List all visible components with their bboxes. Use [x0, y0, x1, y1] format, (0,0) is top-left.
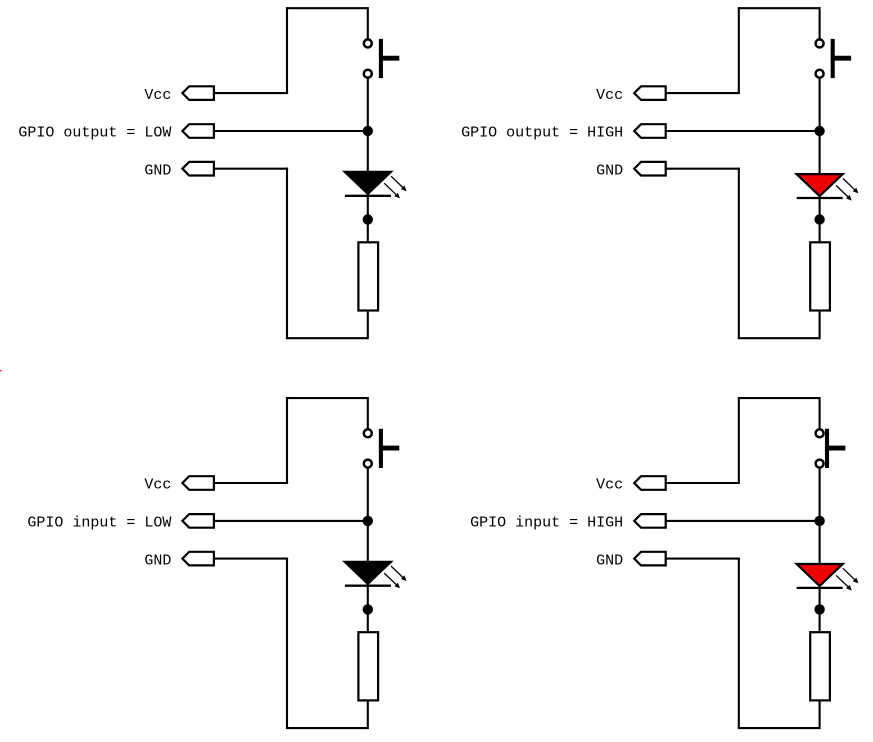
- resistor R1: [358, 242, 378, 310]
- wire: main vertical above switch (circuit 1): [367, 7, 369, 38]
- wire: GND horizontal (circuit 2): [666, 168, 740, 170]
- svg-text:GPIO input = LOW: GPIO input = LOW: [27, 515, 171, 532]
- wire: left vertical Vcc branch (circuit 3): [286, 397, 288, 483]
- wire: GND horizontal (circuit 4): [666, 558, 740, 560]
- LED D4 cathode bar: [797, 587, 843, 589]
- wire: left vertical Vcc branch (circuit 1): [286, 7, 288, 93]
- wire: left vertical GND branch (circuit 3): [286, 558, 288, 729]
- push-button switch SW1 contact circles: [364, 39, 372, 47]
- LED D1 cathode bar: [345, 195, 391, 197]
- global label connector GND (circuit 2): [634, 162, 666, 176]
- junction node between LED and resistor (circuit 1): [363, 214, 373, 224]
- svg-text:Vcc: Vcc: [596, 477, 623, 494]
- svg-text:GPIO output = LOW: GPIO output = LOW: [18, 125, 171, 142]
- push-button switch SW3 contact circles: [364, 429, 372, 437]
- wire: GPIO horizontal (circuit 3): [214, 520, 368, 522]
- wire: main vertical LED to resistor (circuit 4): [819, 587, 821, 632]
- wire: GPIO horizontal (circuit 2): [666, 130, 820, 132]
- wire: main vertical switch to LED (circuit 3): [367, 469, 369, 562]
- svg-text:GPIO input = HIGH: GPIO input = HIGH: [470, 515, 623, 532]
- wire: main vertical LED to resistor (circuit 1): [367, 195, 369, 243]
- wire: left vertical GND branch (circuit 4): [738, 558, 740, 729]
- LED D3 emission arrow: [391, 566, 404, 579]
- global label connector Vcc (circuit 4): [634, 476, 666, 490]
- push-button switch SW1 actuator: [379, 39, 383, 78]
- global label connector GPIO (circuit 2): [634, 124, 666, 138]
- global label connector GPIO (circuit 3): [182, 514, 214, 528]
- wire: left vertical Vcc branch (circuit 4): [738, 397, 740, 483]
- LED D4 triangle (on/red): [797, 564, 843, 586]
- wire: bottom horizontal (circuit 4): [738, 727, 820, 729]
- wire: main vertical above switch (circuit 3): [367, 397, 369, 429]
- resistor R2: [810, 242, 830, 310]
- wire: main vertical switch to LED (circuit 1): [367, 79, 369, 172]
- global label connector Vcc (circuit 1): [182, 86, 214, 100]
- wire: main vertical resistor to bottom (circuit 2): [819, 311, 821, 340]
- wire: main vertical resistor to bottom (circuit 3): [367, 700, 369, 729]
- global label connector GND (circuit 4): [634, 552, 666, 566]
- wire: Vcc horizontal (circuit 4): [666, 482, 740, 484]
- wire: main vertical above switch (circuit 2): [819, 7, 821, 38]
- push-button switch SW4 actuator: [825, 429, 829, 468]
- junction node at GPIO row (circuit 1): [363, 126, 373, 136]
- svg-text:GND: GND: [144, 552, 171, 569]
- junction node between LED and resistor (circuit 3): [363, 604, 373, 614]
- wire: left vertical Vcc branch (circuit 2): [738, 7, 740, 93]
- wire: bottom horizontal (circuit 3): [286, 727, 368, 729]
- svg-text:Vcc: Vcc: [596, 87, 623, 104]
- LED D3 triangle (off/black): [345, 562, 391, 584]
- wire: top horizontal (circuit 1): [287, 7, 368, 9]
- wire: bottom horizontal (circuit 2): [738, 337, 820, 339]
- push-button switch SW2 actuator: [831, 39, 835, 78]
- svg-text:Vcc: Vcc: [144, 87, 171, 104]
- junction node between LED and resistor (circuit 2): [814, 214, 824, 224]
- svg-text:GND: GND: [596, 162, 623, 179]
- wire: top horizontal (circuit 3): [287, 397, 368, 399]
- wire: left vertical GND branch (circuit 1): [286, 168, 288, 339]
- wire: Vcc horizontal (circuit 1): [214, 92, 288, 94]
- wire: top horizontal (circuit 2): [739, 7, 820, 9]
- LED D3 emission arrow: [384, 573, 398, 586]
- wire: main vertical LED to resistor (circuit 2): [819, 197, 821, 242]
- wire: main vertical switch to LED (circuit 2): [819, 79, 821, 175]
- wire: main vertical LED to resistor (circuit 3): [367, 585, 369, 633]
- LED D1 emission arrow: [391, 176, 404, 189]
- svg-text:GPIO output = HIGH: GPIO output = HIGH: [461, 125, 623, 142]
- wire: Vcc horizontal (circuit 2): [666, 92, 740, 94]
- wire: top horizontal (circuit 4): [739, 397, 820, 399]
- global label connector GND (circuit 3): [182, 552, 214, 566]
- push-button switch SW3 actuator: [379, 429, 383, 468]
- global label connector Vcc (circuit 2): [634, 86, 666, 100]
- LED D2 triangle (on/red): [797, 174, 843, 196]
- wire: main vertical above switch (circuit 4): [819, 397, 821, 429]
- svg-text:Vcc: Vcc: [144, 477, 171, 494]
- wire: GND horizontal (circuit 1): [214, 168, 288, 170]
- LED D1 triangle (off/black): [345, 172, 391, 194]
- wire: main vertical switch to LED (circuit 4): [819, 469, 821, 565]
- junction node at GPIO row (circuit 4): [814, 516, 824, 526]
- LED D4 emission arrow: [843, 568, 856, 581]
- resistor R3: [358, 632, 378, 700]
- resistor R4: [810, 632, 830, 700]
- junction node at GPIO row (circuit 3): [363, 516, 373, 526]
- LED D1 emission arrow: [384, 183, 398, 196]
- LED D4 emission arrow: [836, 575, 850, 588]
- wire: GPIO horizontal (circuit 4): [666, 520, 820, 522]
- wire: GND horizontal (circuit 3): [214, 558, 288, 560]
- global label connector GPIO (circuit 1): [182, 124, 214, 138]
- svg-text:GND: GND: [596, 552, 623, 569]
- LED D2 emission arrow: [836, 185, 850, 198]
- LED D2 emission arrow: [843, 178, 856, 191]
- push-button switch SW2 contact circles: [816, 39, 824, 47]
- global label connector GND (circuit 1): [182, 162, 214, 176]
- wire: GPIO horizontal (circuit 1): [214, 130, 368, 132]
- wire: bottom horizontal (circuit 1): [286, 337, 368, 339]
- global label connector Vcc (circuit 3): [182, 476, 214, 490]
- junction node between LED and resistor (circuit 4): [814, 604, 824, 614]
- stray red cursor mark at left edge: [0, 370, 1, 371]
- wire: left vertical GND branch (circuit 2): [738, 168, 740, 339]
- junction node at GPIO row (circuit 2): [814, 126, 824, 136]
- wire: main vertical resistor to bottom (circuit 1): [367, 311, 369, 340]
- svg-text:GND: GND: [144, 162, 171, 179]
- push-button switch SW4 contact circles: [816, 429, 824, 437]
- LED D3 cathode bar: [345, 585, 391, 587]
- wire: Vcc horizontal (circuit 3): [214, 482, 288, 484]
- wire: main vertical resistor to bottom (circuit 4): [819, 700, 821, 729]
- global label connector GPIO (circuit 4): [634, 514, 666, 528]
- LED D2 cathode bar: [797, 197, 843, 199]
